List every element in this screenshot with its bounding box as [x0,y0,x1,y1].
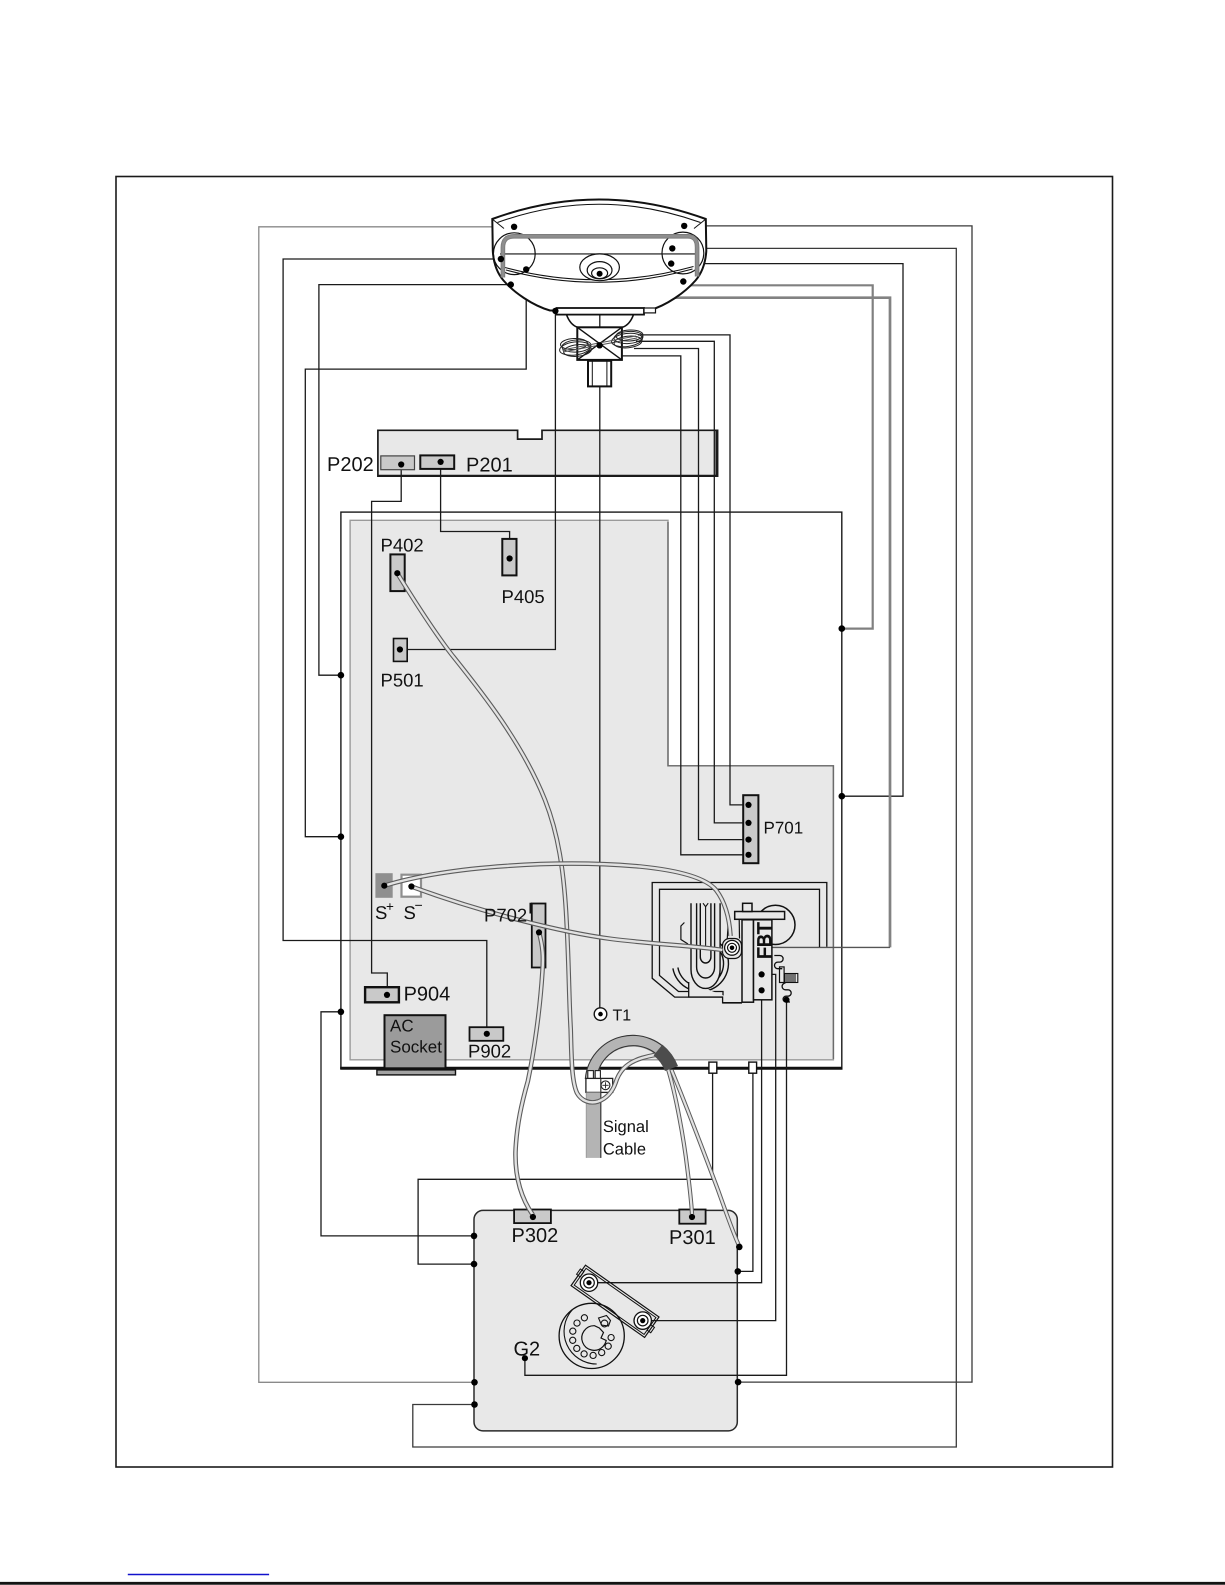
wire chassis standoff 2 to bottom board right edge [738,1073,753,1271]
junction neck board right edge 2 [735,1268,742,1275]
FBT pin dots [759,971,790,1003]
label P702 [484,905,527,926]
svg-text:Cable: Cable [603,1140,646,1158]
CRT connection lugs (dots) [498,223,688,349]
wire yoke lead 3 to P701 pin3 [634,349,749,840]
CRT corner ears [493,232,703,275]
svg-text:P201: P201 [466,455,513,477]
deflection yoke body with cross [577,327,622,360]
label P301 [669,1227,716,1249]
label P701 [764,819,804,838]
connector P904 [365,987,399,1002]
connector P405 [502,539,516,576]
svg-text:G2: G2 [514,1339,541,1361]
chassis standoff 2 [749,1062,757,1073]
wire CRT left inner lug to main board left edge [305,269,526,836]
border frame [116,177,1113,1468]
label G2 [514,1339,541,1361]
svg-text:Socket: Socket [390,1037,442,1056]
solder pad S+ pin [381,883,387,889]
connector P501 [394,639,408,662]
wire CRT left lug to P902 [283,259,501,1034]
junction neck board left edge 1 [471,1233,478,1240]
footer short blue rule [128,1574,269,1576]
svg-text:P902: P902 [468,1041,511,1062]
svg-text:P501: P501 [381,670,424,691]
connector P402 pin [394,570,400,576]
svg-text:Signal: Signal [603,1118,649,1136]
ground point T1 [594,1008,607,1021]
cable clamp with screw [586,1071,613,1093]
footer page-edge rule [0,1582,1225,1585]
wire yoke lead 4 to P701 pin4 [622,356,749,855]
FBT screen lead coil [782,983,791,1002]
FBT focus lead coil [774,956,784,983]
wire yoke lead 1 to P701 pin1 [638,335,749,805]
connector P702 body [530,904,545,968]
FBT label [754,922,776,959]
junction main board left edge lower [338,1009,345,1016]
connector P302 body [514,1210,551,1224]
FBT anode cap terminal [725,940,740,955]
junction neck board right edge 1 [736,1244,743,1251]
svg-text:−: − [415,897,423,913]
solder pad S- pin [408,883,414,889]
svg-text:P904: P904 [404,983,451,1005]
CRT socket focus housing (rotated) [569,1264,660,1339]
junction main board right edge upper [839,625,846,632]
signal cable tail [586,1079,601,1158]
wire CRT top-left lug to bottom board left edge (gray) [259,227,514,1383]
label T1 [613,1007,632,1024]
CRT neck board (bottom board) [474,1210,737,1431]
svg-text:P301: P301 [669,1227,716,1249]
junction neck board left edge 2 [471,1261,478,1268]
CRT socket on neck board [559,1303,624,1368]
main PCB silkscreen (gray board with notch) [350,520,833,1060]
solder pad S+ body [375,873,392,898]
degaussing coil [503,236,697,277]
solder pad S- body [402,875,422,897]
harness tape wrap [658,1050,672,1069]
G2 test point dot [522,1355,528,1361]
FBT bracket [681,923,688,945]
wire FBT pin to socket grommet 2 [651,974,775,1320]
signal cable harness arc [585,1035,673,1079]
label P201 [466,455,513,477]
yoke winding scribble left [559,338,637,358]
FBT shield outline [652,883,827,1004]
svg-text:P402: P402 [381,534,424,555]
wire FBT pin to socket grommet 1 [598,990,762,1282]
cable FBT to S+ [384,864,730,936]
junction main board left edge upper [338,672,345,679]
yoke funnel [567,315,634,328]
socket grommet 1 [580,1274,597,1291]
label P402 [381,534,424,555]
wire yoke lead 2 to P701 pin2 [636,341,749,823]
label P904 [404,983,451,1005]
anode cap [580,254,620,281]
FBT anode cap mount pad [723,919,742,958]
label S+ [375,899,394,923]
wire P201 to P405 [441,462,510,559]
main PCB outline [340,512,842,1068]
label P302 [512,1225,559,1247]
FBT ferrite U core [691,903,720,988]
label P202 [327,454,374,476]
svg-text:FBT: FBT [754,922,776,959]
wire CRT right lug to bottom board left edge (long loop under board) [413,248,957,1447]
yoke winding scribble right [562,329,643,350]
connector P302 pin [530,1214,536,1220]
AC socket [377,1015,456,1075]
junction neck board left edge 4 [471,1401,478,1408]
cable P402 to signal-cable bundle (loops round clamp) [397,573,665,1102]
svg-text:P405: P405 [502,586,545,607]
svg-text:AC: AC [390,1017,414,1036]
cable bundle strand to P301 [668,1069,692,1214]
wire G2 to FBT screen lead [525,1000,787,1376]
svg-text:P702: P702 [484,905,527,926]
cable FBT to S- [411,887,722,951]
CRT inner bowl arc [505,267,694,283]
wire CRT anode centre down to T1 ground point [599,277,601,1008]
FBT core legs [742,920,772,1002]
connector P301 pin [689,1214,695,1220]
label P501 [381,670,424,691]
connector P201 [420,455,454,469]
wire CRT top-right lug to bottom board right edge [684,226,972,1382]
label S- [404,897,423,923]
svg-text:P701: P701 [764,819,804,838]
label P902 [468,1041,511,1062]
connector P702 pin [536,929,542,935]
junction neck board left edge 3 [471,1379,478,1386]
svg-text:T1: T1 [613,1007,632,1024]
label P405 [502,586,545,607]
junction neck board right edge 3 [735,1379,742,1386]
svg-text:+: + [386,899,394,914]
wire chassis standoff 1 to bottom board left edge [418,1073,712,1264]
anode HV lead from CRT anode cap to FBT (gray) [600,298,890,948]
FBT top arm with round boss [735,903,795,944]
svg-text:P202: P202 [327,454,374,476]
wire CRT lower-left lug to main board left edge [319,285,511,676]
label Signal Cable [603,1118,649,1159]
connector P402 body [390,554,404,591]
cable bundle strand to bottom board right edge [672,1070,740,1246]
chassis standoff 1 [709,1062,717,1073]
wire CRT right inner lug to main board right edge [671,264,903,797]
junction main board right edge lower [839,793,846,800]
socket grommet 2 [634,1312,651,1329]
junction main board left edge middle [338,833,345,840]
FBT coil body (C ring) [673,941,742,1003]
connector P902 [470,1027,504,1041]
wire yoke plate to P501 [400,311,556,650]
yoke mounting plate [557,308,656,315]
CRT neck [588,361,611,387]
FBT screen potentiometer comb [785,974,798,983]
wire main board left edge to bottom board left edge [321,1012,474,1236]
connector P701 [743,795,758,863]
label AC Socket [390,1017,442,1057]
CRT envelope (rear view) [492,200,706,311]
connector P301 body [679,1210,705,1224]
wire P202 to P904 [372,465,402,995]
svg-text:P302: P302 [512,1225,559,1247]
cable P702 to P302 [515,932,542,1215]
video amp board strip (P201/P202 board) [378,430,718,476]
wire degauss coil right end to main board right edge (gray) [683,282,872,629]
connector P202 [381,456,415,470]
